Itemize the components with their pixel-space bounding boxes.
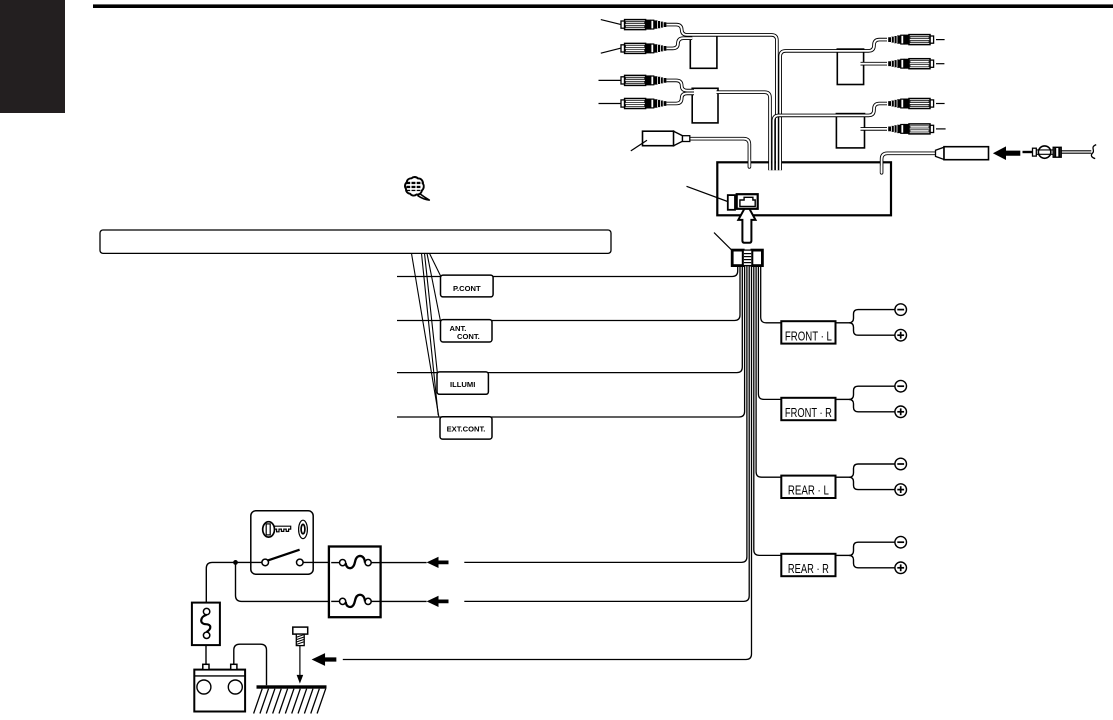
svg-text:P.CONT: P.CONT bbox=[453, 284, 481, 293]
svg-text:ILLUMI: ILLUMI bbox=[450, 380, 475, 389]
svg-text:EXT.CONT.: EXT.CONT. bbox=[447, 425, 486, 434]
svg-text:FRONT · L: FRONT · L bbox=[785, 329, 832, 343]
svg-text:FRONT · R: FRONT · R bbox=[785, 406, 832, 420]
svg-text:REAR · R: REAR · R bbox=[788, 562, 829, 576]
svg-text:REAR · L: REAR · L bbox=[788, 484, 829, 498]
svg-text:CONT.: CONT. bbox=[457, 332, 480, 341]
